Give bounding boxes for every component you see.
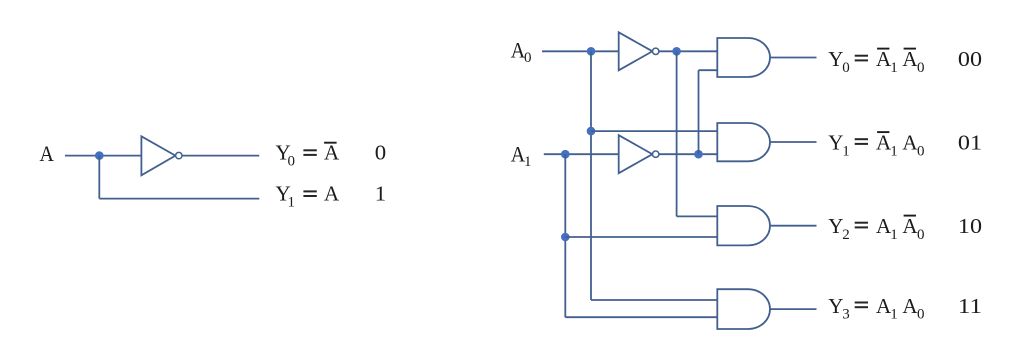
wire A0 input bbox=[542, 50, 619, 52]
node junction A0 to G2 bbox=[587, 127, 596, 136]
node junction A1 branch bbox=[561, 150, 570, 159]
wire A to Y1 horizontal bbox=[99, 198, 259, 200]
svg-text:Y: Y bbox=[828, 214, 843, 238]
node junction A1-bar bbox=[694, 150, 703, 159]
svg-text:10: 10 bbox=[958, 214, 982, 238]
wire A1 input bbox=[544, 153, 619, 155]
svg-text:1: 1 bbox=[890, 307, 898, 323]
svg-text:01: 01 bbox=[958, 131, 982, 155]
label Y0 = A-bar bbox=[276, 141, 341, 170]
label value 0 bbox=[375, 141, 386, 165]
label Y1 = A1-bar A0 bbox=[828, 131, 924, 160]
wire A0 to G4 top input bbox=[591, 299, 717, 301]
wire Y0 output bbox=[182, 155, 259, 157]
svg-text:0: 0 bbox=[917, 307, 925, 323]
input label A0 bbox=[511, 37, 532, 66]
svg-text:Y: Y bbox=[828, 47, 843, 71]
wire Y3 output bbox=[770, 308, 817, 310]
label bits 10 bbox=[958, 214, 982, 238]
input label A bbox=[40, 141, 55, 166]
input label A1 bbox=[511, 141, 532, 170]
wire A0-bar vertical bbox=[676, 51, 678, 216]
wire Y2 output bbox=[770, 225, 817, 227]
svg-text:0: 0 bbox=[842, 60, 850, 76]
inverter U2 bbox=[619, 32, 659, 70]
wire A1 to G3 bottom input bbox=[565, 236, 717, 238]
svg-text:1: 1 bbox=[890, 143, 898, 159]
svg-text:0: 0 bbox=[917, 143, 925, 159]
label value 1 bbox=[375, 182, 386, 206]
svg-text:3: 3 bbox=[842, 307, 850, 323]
svg-text:0: 0 bbox=[917, 227, 925, 243]
inverter U3 bbox=[619, 135, 659, 173]
svg-text:A: A bbox=[902, 131, 918, 155]
svg-text:1: 1 bbox=[375, 182, 386, 206]
wire A1-bar to G1 bottom input bbox=[699, 69, 718, 71]
label Y1 = A bbox=[276, 182, 341, 211]
svg-text:0: 0 bbox=[524, 50, 532, 66]
svg-text:1: 1 bbox=[890, 227, 898, 243]
wire A0 vertical bbox=[590, 51, 592, 300]
wire A0-bar out bbox=[659, 50, 718, 52]
svg-text:A: A bbox=[324, 182, 340, 206]
svg-text:Y: Y bbox=[828, 131, 843, 155]
wire A1-bar vertical bbox=[698, 70, 700, 154]
svg-text:11: 11 bbox=[958, 294, 982, 318]
wire A branch vertical bbox=[98, 156, 100, 199]
svg-text:1: 1 bbox=[288, 195, 296, 211]
label bits 11 bbox=[958, 294, 982, 318]
svg-text:0: 0 bbox=[917, 60, 925, 76]
svg-text:Y: Y bbox=[828, 294, 843, 318]
label Y3 = A1 A0 bbox=[828, 294, 924, 323]
wire A1 to G4 bottom input bbox=[565, 316, 717, 318]
node junction A0 branch bbox=[587, 47, 596, 56]
label bits 01 bbox=[958, 131, 982, 155]
wire A input bbox=[65, 155, 141, 157]
svg-text:1: 1 bbox=[890, 60, 898, 76]
svg-text:2: 2 bbox=[842, 227, 850, 243]
label Y0 = A1-bar A0-bar bbox=[828, 47, 924, 76]
wire Y1 output bbox=[770, 141, 817, 143]
label bits 00 bbox=[958, 47, 982, 71]
and-gate G3 bbox=[717, 206, 770, 245]
svg-text:A: A bbox=[324, 141, 340, 165]
node junction on A bbox=[95, 151, 104, 160]
and-gate G4 bbox=[717, 289, 770, 329]
node junction A1 to G3 bbox=[561, 233, 570, 242]
svg-text:0: 0 bbox=[375, 141, 386, 165]
svg-text:1: 1 bbox=[524, 154, 532, 170]
wire A1-bar out bbox=[659, 153, 718, 155]
wire A1 vertical bbox=[564, 154, 566, 317]
svg-text:00: 00 bbox=[958, 47, 982, 71]
svg-text:A: A bbox=[902, 47, 918, 71]
node junction A0-bar bbox=[672, 47, 681, 56]
and-gate G2 bbox=[717, 123, 770, 161]
wire A0-bar to G3 top input bbox=[677, 215, 718, 217]
svg-text:1: 1 bbox=[842, 143, 850, 159]
svg-text:A: A bbox=[40, 141, 55, 166]
wire Y0 output bbox=[770, 57, 817, 59]
svg-text:0: 0 bbox=[288, 154, 296, 170]
svg-text:A: A bbox=[902, 294, 918, 318]
inverter U1 bbox=[141, 136, 182, 175]
wire A0 to G2 top input bbox=[591, 130, 717, 132]
svg-text:A: A bbox=[902, 214, 918, 238]
and-gate G1 bbox=[717, 38, 770, 77]
label Y2 = A1 A0-bar bbox=[828, 214, 924, 243]
